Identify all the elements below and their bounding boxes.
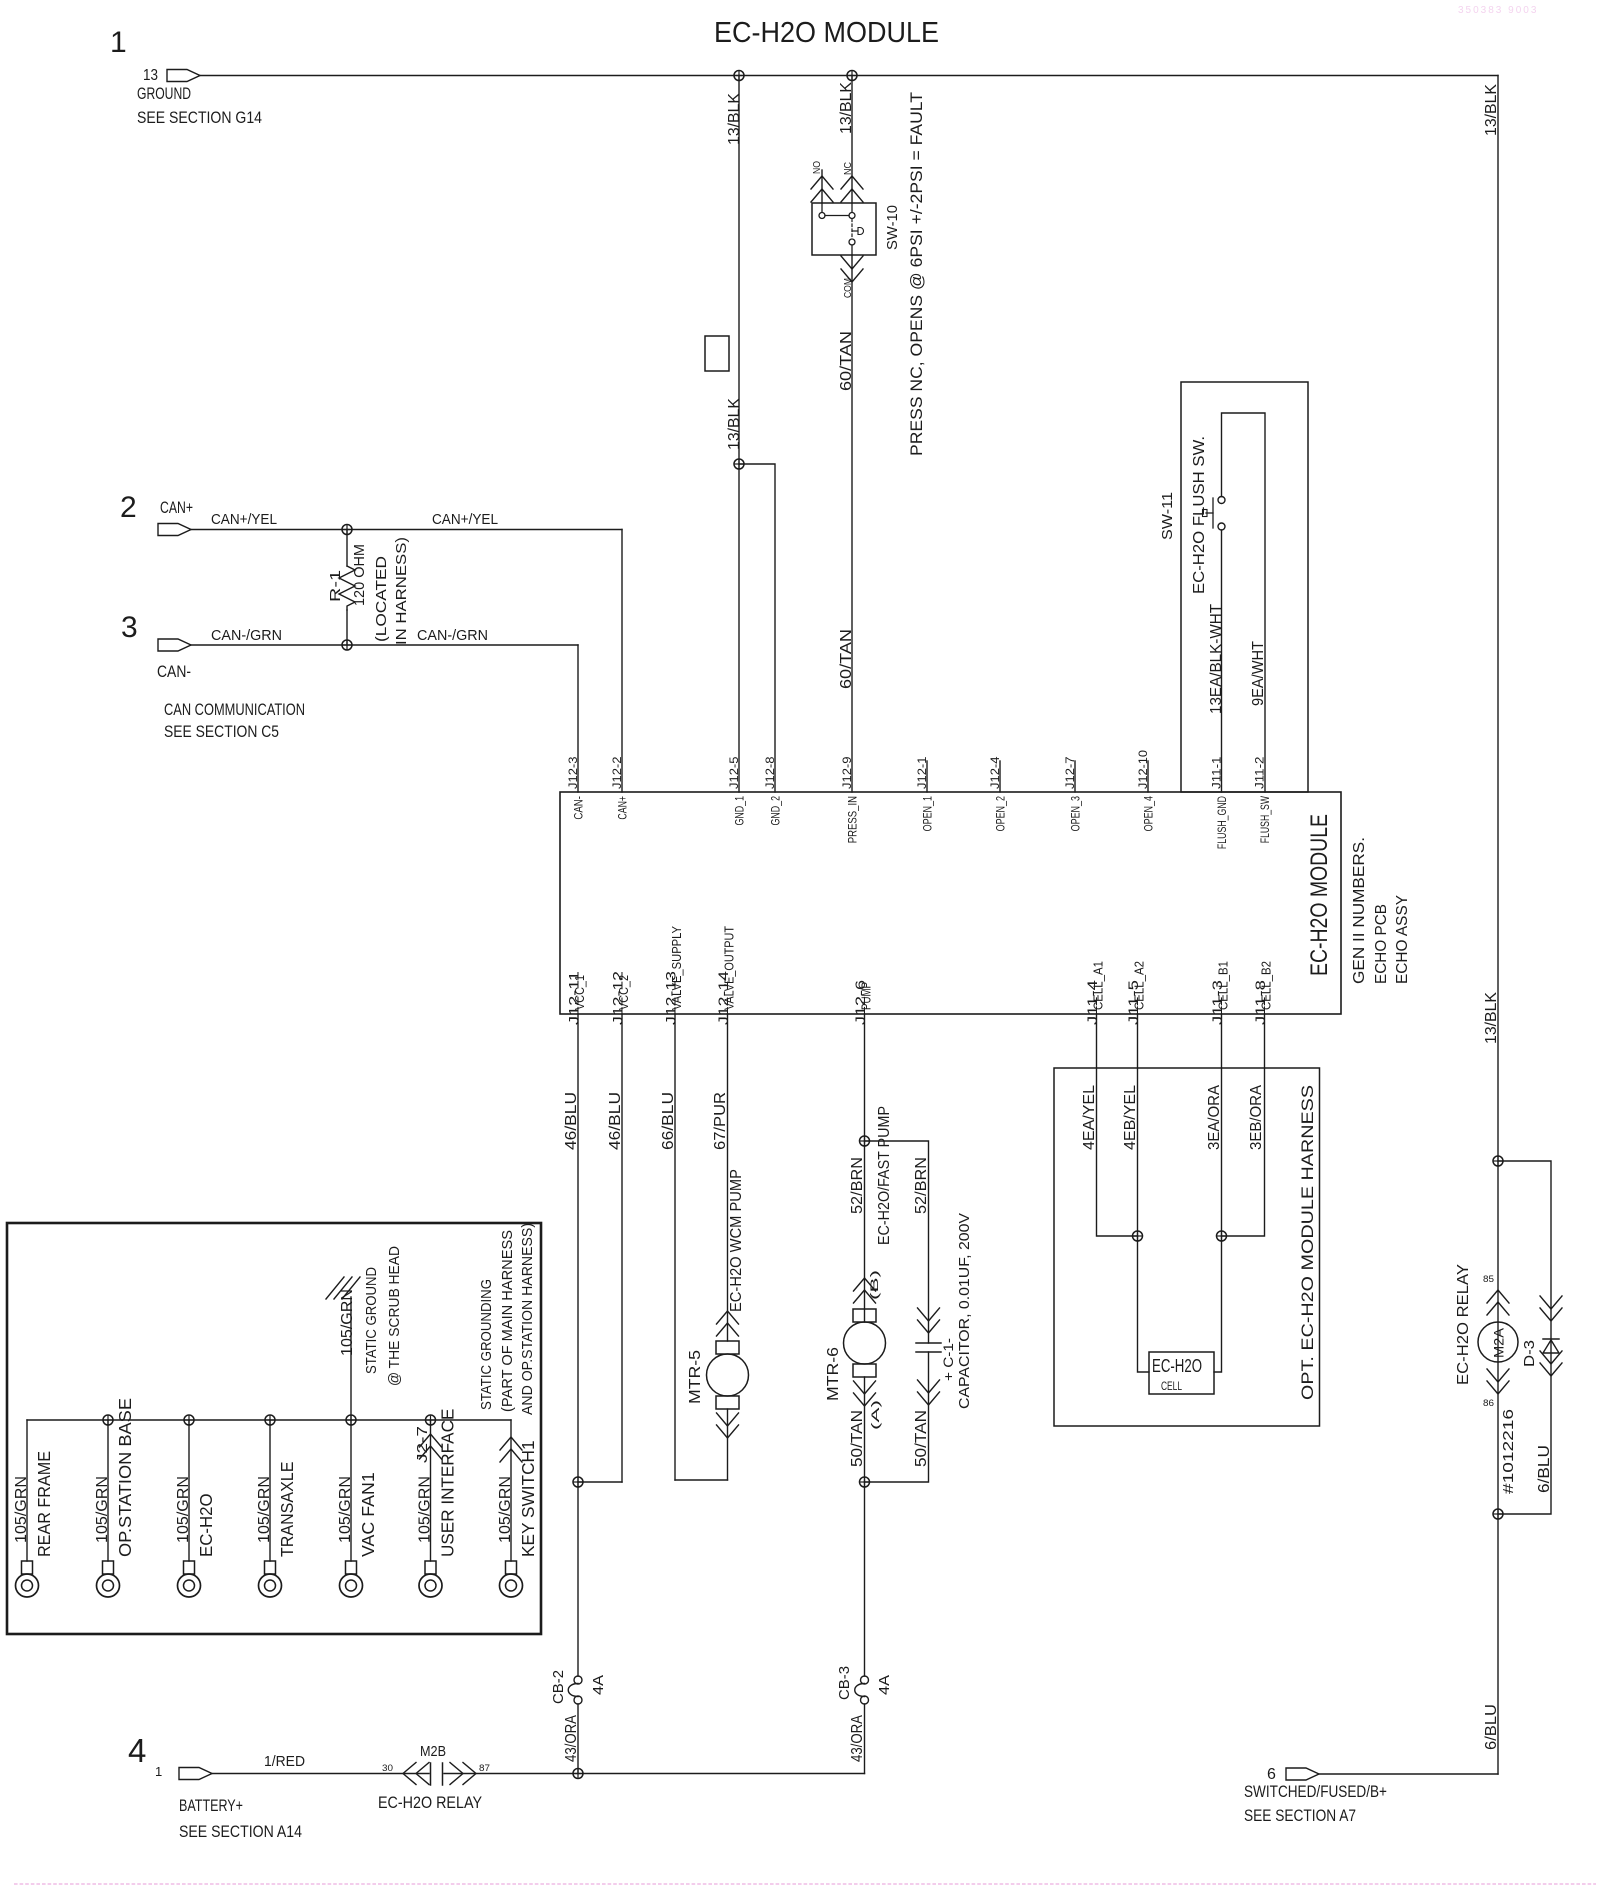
svg-text:CELL: CELL [1161,1381,1182,1393]
svg-text:CAN-: CAN- [574,796,586,820]
svg-text:13/BLK: 13/BLK [726,397,743,450]
svg-text:OPEN_1: OPEN_1 [923,796,935,831]
svg-text:(B): (B) [869,1270,881,1300]
svg-text:13: 13 [143,67,158,84]
svg-text:4EA/YEL: 4EA/YEL [1081,1085,1098,1150]
svg-text:COM: COM [843,278,854,298]
svg-text:CAN-/GRN: CAN-/GRN [417,627,488,644]
svg-text:#1012216: #1012216 [1500,1409,1517,1494]
svg-text:PRESS_IN: PRESS_IN [848,796,860,843]
svg-text:NC: NC [843,162,854,175]
svg-text:13/BLK: 13/BLK [838,81,855,134]
svg-text:6/BLU: 6/BLU [1483,1704,1500,1750]
svg-text:IN HARNESS): IN HARNESS) [393,537,410,645]
svg-text:4A: 4A [590,1675,607,1695]
svg-text:ECHO PCB: ECHO PCB [1373,904,1390,984]
svg-text:VCC_1: VCC_1 [573,975,587,1010]
svg-text:(PART OF MAIN HARNESS: (PART OF MAIN HARNESS [499,1230,516,1412]
svg-text:M2A: M2A [1492,1328,1507,1358]
svg-text:EC-H2O RELAY: EC-H2O RELAY [1455,1264,1472,1385]
svg-text:J12-3: J12-3 [568,757,580,790]
svg-text:OPEN_2: OPEN_2 [996,796,1008,831]
svg-text:J11-2: J11-2 [1255,757,1267,790]
svg-text:J12-5: J12-5 [729,757,741,790]
svg-text:R-1: R-1 [327,570,344,602]
svg-text:STATIC GROUND: STATIC GROUND [363,1267,380,1374]
svg-text:EC-H2O MODULE: EC-H2O MODULE [1306,814,1333,976]
svg-text:TRANSAXLE: TRANSAXLE [277,1462,297,1557]
svg-text:GND_2: GND_2 [771,796,783,826]
svg-text:J12-2: J12-2 [612,757,624,790]
svg-text:VCC_2: VCC_2 [617,975,631,1010]
svg-text:KEY SWITCH1: KEY SWITCH1 [518,1440,538,1557]
svg-text:6/BLU: 6/BLU [1536,1445,1553,1493]
svg-text:REAR FRAME: REAR FRAME [34,1451,54,1557]
svg-text:(LOCATED: (LOCATED [373,556,390,642]
svg-text:SEE SECTION G14: SEE SECTION G14 [137,109,262,127]
svg-text:EC-H2O WCM PUMP: EC-H2O WCM PUMP [728,1169,745,1312]
svg-text:CAN+: CAN+ [618,796,630,820]
svg-text:4A: 4A [876,1675,893,1695]
svg-text:87: 87 [479,1763,490,1773]
svg-text:OPEN_3: OPEN_3 [1071,796,1083,831]
svg-text:105/GRN: 105/GRN [94,1476,111,1543]
svg-text:4: 4 [128,1732,146,1769]
svg-text:VAC FAN1: VAC FAN1 [358,1472,378,1557]
svg-text:CELL_B2: CELL_B2 [1260,961,1274,1010]
svg-text:EC-H2O: EC-H2O [196,1493,216,1557]
svg-text:CELL_B1: CELL_B1 [1217,961,1231,1010]
svg-text:46/BLU: 46/BLU [607,1092,624,1150]
svg-text:GROUND: GROUND [137,85,191,103]
svg-text:PUMP: PUMP [860,982,874,1010]
svg-text:105/GRN: 105/GRN [497,1476,514,1543]
svg-text:STATIC GROUNDING: STATIC GROUNDING [478,1279,495,1410]
svg-text:AND OP.STATION HARNESS): AND OP.STATION HARNESS) [520,1223,536,1415]
svg-text:3: 3 [121,611,138,644]
svg-text:105/GRN: 105/GRN [417,1476,434,1543]
svg-text:CAPACITOR, 0.01UF, 200V: CAPACITOR, 0.01UF, 200V [956,1213,973,1409]
svg-text:1: 1 [155,1764,162,1779]
svg-text:43/ORA: 43/ORA [849,1714,866,1762]
svg-text:CB-2: CB-2 [550,1670,567,1704]
svg-text:CAN+/YEL: CAN+/YEL [432,511,498,528]
svg-text:OPEN_4: OPEN_4 [1144,796,1156,832]
svg-text:350383 9003: 350383 9003 [1458,5,1538,16]
svg-text:BATTERY+: BATTERY+ [179,1797,243,1815]
svg-text:CAN COMMUNICATION: CAN COMMUNICATION [164,701,305,719]
svg-text:@ THE SCRUB HEAD: @ THE SCRUB HEAD [386,1246,403,1386]
svg-text:3EB/ORA: 3EB/ORA [1248,1084,1265,1150]
svg-text:60/TAN: 60/TAN [838,629,855,689]
svg-text:J2-7: J2-7 [414,1426,431,1463]
svg-text:EC-H2O FLUSH SW.: EC-H2O FLUSH SW. [1191,436,1208,594]
svg-text:EC-H2O RELAY: EC-H2O RELAY [378,1794,482,1812]
svg-text:3EA/ORA: 3EA/ORA [1206,1084,1223,1150]
svg-text:M2B: M2B [420,1743,446,1760]
svg-text:43/ORA: 43/ORA [563,1714,580,1762]
svg-text:CAN+: CAN+ [160,499,193,517]
svg-text:67/PUR: 67/PUR [712,1092,729,1150]
svg-text:13/BLK: 13/BLK [726,92,743,145]
svg-text:CAN+/YEL: CAN+/YEL [211,511,277,528]
svg-text:CAN-/GRN: CAN-/GRN [211,627,282,644]
svg-text:J11-1: J11-1 [1212,757,1224,790]
svg-text:EC-H2O/FAST PUMP: EC-H2O/FAST PUMP [876,1106,893,1245]
svg-text:105/GRN: 105/GRN [337,1476,354,1543]
svg-text:13/BLK: 13/BLK [1483,991,1500,1044]
svg-text:46/BLU: 46/BLU [563,1092,580,1150]
svg-text:D-3: D-3 [1521,1340,1538,1367]
svg-text:MTR-6: MTR-6 [825,1347,842,1401]
svg-text:(A): (A) [870,1400,882,1430]
svg-text:OPT. EC-H2O MODULE HARNESS: OPT. EC-H2O MODULE HARNESS [1298,1085,1317,1400]
svg-text:SEE SECTION C5: SEE SECTION C5 [164,723,279,741]
svg-text:VALVE_OUTPUT: VALVE_OUTPUT [723,926,737,1010]
svg-text:4EB/YEL: 4EB/YEL [1122,1085,1139,1150]
svg-text:1: 1 [110,26,127,59]
svg-text:52/BRN: 52/BRN [913,1157,930,1214]
svg-text:VALVE_SUPPLY: VALVE_SUPPLY [670,925,684,1010]
svg-text:USER INTERFACE: USER INTERFACE [438,1409,458,1557]
svg-text:1/RED: 1/RED [264,1753,305,1770]
svg-text:ECHO ASSY: ECHO ASSY [1394,895,1411,984]
svg-text:66/BLU: 66/BLU [660,1092,677,1150]
svg-text:SWITCHED/FUSED/B+: SWITCHED/FUSED/B+ [1244,1783,1387,1801]
svg-text:SW-10: SW-10 [884,205,901,250]
svg-text:13/BLK: 13/BLK [1483,83,1500,136]
svg-text:105/GRN: 105/GRN [256,1476,273,1543]
svg-text:9EA/WHT: 9EA/WHT [1250,641,1267,706]
svg-text:2: 2 [120,491,137,524]
svg-text:CAN-: CAN- [157,663,191,681]
svg-text:EC-H2O MODULE: EC-H2O MODULE [714,17,939,49]
svg-text:GND_1: GND_1 [735,796,747,826]
svg-text:13EA/BLK-WHT: 13EA/BLK-WHT [1208,603,1225,714]
svg-text:+ C-1-: + C-1- [940,1338,956,1381]
svg-text:OP.STATION BASE: OP.STATION BASE [115,1398,135,1557]
svg-text:50/TAN: 50/TAN [849,1410,866,1467]
svg-text:GEN II NUMBERS.: GEN II NUMBERS. [1351,837,1368,984]
svg-text:CELL_A2: CELL_A2 [1133,961,1147,1010]
svg-text:86: 86 [1483,1398,1494,1408]
svg-text:85: 85 [1483,1274,1494,1284]
svg-text:120 OHM: 120 OHM [351,544,368,606]
svg-text:FLUSH_GND: FLUSH_GND [1217,796,1229,849]
svg-text:MTR-5: MTR-5 [687,1350,704,1404]
svg-text:EC-H2O: EC-H2O [1152,1356,1202,1376]
svg-text:SW-11: SW-11 [1159,492,1176,540]
svg-text:J12-9: J12-9 [842,757,854,790]
svg-text:CELL_A1: CELL_A1 [1092,961,1106,1010]
svg-text:50/TAN: 50/TAN [913,1410,930,1467]
svg-text:FLUSH_SW: FLUSH_SW [1260,796,1272,843]
svg-text:30: 30 [382,1763,393,1773]
svg-text:105/GRN: 105/GRN [13,1476,30,1543]
svg-text:105/GRN: 105/GRN [175,1476,192,1543]
svg-text:52/BRN: 52/BRN [849,1157,866,1214]
svg-text:J12-8: J12-8 [765,757,777,790]
svg-text:NO: NO [812,161,823,174]
svg-text:PRESS NC, OPENS @ 6PSI +/-2PSI: PRESS NC, OPENS @ 6PSI +/-2PSI = FAULT [908,92,926,456]
svg-text:6: 6 [1267,1766,1276,1783]
svg-text:105/GRN: 105/GRN [339,1289,356,1356]
svg-text:60/TAN: 60/TAN [838,331,855,391]
svg-text:SEE SECTION A7: SEE SECTION A7 [1244,1807,1356,1825]
svg-text:CB-3: CB-3 [836,1666,853,1700]
svg-text:SEE SECTION A14: SEE SECTION A14 [179,1823,302,1841]
